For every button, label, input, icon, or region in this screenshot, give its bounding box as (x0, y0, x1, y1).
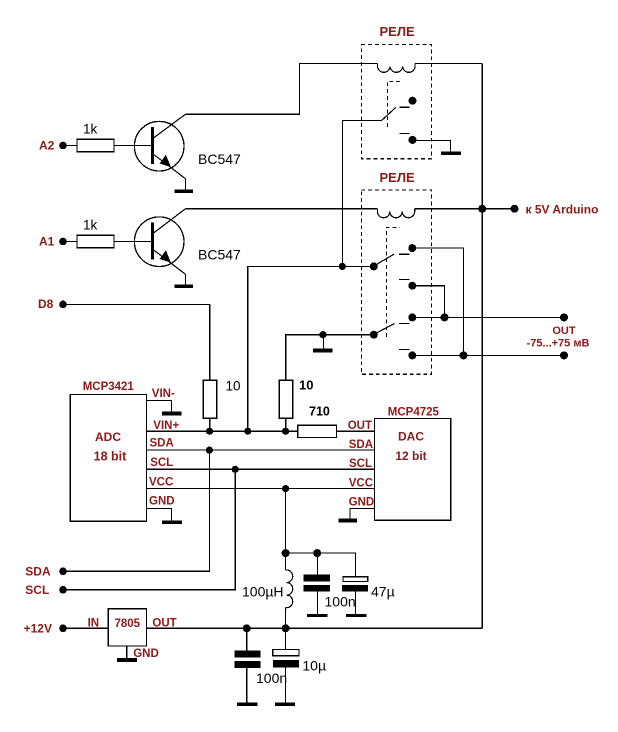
relay K2 inner linkage (386, 228, 400, 337)
relay K1 outline (361, 45, 431, 159)
wire R3 to VIN+ (285, 418, 287, 431)
junction SDA drop (206, 447, 213, 454)
wire 7805 GND (126, 646, 128, 658)
junction relay commons (339, 263, 346, 270)
resistor R4 (77, 235, 114, 247)
wire relay K2 contact1 to contact4 (412, 248, 463, 355)
junction power line L1/C4 (282, 624, 290, 632)
svg-text:SDA: SDA (150, 438, 174, 450)
relay K2 outline (361, 190, 431, 374)
wire +12V to regulator (66, 627, 108, 629)
relay K2 contact 1 stub (399, 253, 409, 255)
resistor R2 (203, 380, 216, 418)
ground C2 (346, 614, 366, 617)
node OUT upper (560, 313, 568, 321)
wire R1 to Q1 base (114, 145, 152, 147)
svg-text:GND: GND (149, 496, 175, 508)
resistor R3 (279, 380, 292, 418)
wire SCL to terminal (66, 469, 235, 590)
svg-text:100µH: 100µH (242, 583, 284, 599)
capacitor C2 47µ (342, 577, 368, 614)
wire D8 to R2 (66, 304, 210, 380)
transistor Q1 BC547 (134, 114, 185, 189)
svg-text:ADC: ADC (95, 430, 121, 444)
relay K2 contact 2 stub (399, 279, 409, 281)
svg-text:GND: GND (133, 648, 159, 660)
relay K2 contact 2 dot (408, 282, 416, 290)
wire common B to ground and R3 (286, 335, 374, 380)
resistor R5 710 (298, 425, 337, 437)
svg-text:MCP4725: MCP4725 (388, 406, 440, 418)
wire R4 to Q2 base (114, 241, 152, 243)
ground C4 (275, 703, 295, 706)
junction VCC drop (282, 485, 289, 492)
svg-text:РЕЛЕ: РЕЛЕ (380, 24, 415, 39)
relay K1 armature (381, 108, 395, 121)
pin GND (ADC) (147, 496, 175, 521)
wire Q1 collector net (185, 63, 377, 114)
svg-text:РЕЛЕ: РЕЛЕ (380, 170, 415, 185)
junction VIN+/R2 (206, 428, 213, 435)
ground Q2 emitter (175, 284, 194, 288)
svg-text:100n: 100n (325, 593, 356, 609)
wire SCL bus (147, 468, 375, 470)
node SCL (25, 583, 67, 597)
ground Q1 emitter (175, 189, 194, 193)
wire OUT lower (412, 354, 564, 356)
ground 7805 (117, 658, 137, 662)
svg-text:D8: D8 (38, 297, 54, 311)
ground VIN- (162, 412, 182, 416)
wire A2 to R1 (66, 145, 78, 147)
node relay K2 common B (370, 331, 378, 339)
svg-text:-75...+75 мВ: -75...+75 мВ (527, 337, 590, 349)
wire VCC to filter (285, 489, 287, 553)
relay K2 contact 1 dot (408, 244, 416, 252)
relay K2 contact 3 dot (408, 313, 416, 321)
svg-text:SCL: SCL (349, 458, 372, 470)
svg-text:к 5V Arduino: к 5V Arduino (526, 203, 599, 217)
capacitor C3 100n (235, 628, 261, 702)
junction SCL drop (232, 466, 239, 473)
svg-text:GND: GND (349, 497, 375, 509)
relay K1 contact NC dot (409, 136, 417, 144)
wire 710 to DAC OUT (337, 430, 375, 432)
svg-text:+12V: +12V (24, 621, 52, 635)
svg-text:10µ: 10µ (302, 658, 326, 674)
node SDA (25, 565, 67, 579)
wire filter top (286, 553, 356, 577)
wire relay K1 NC to ground (413, 140, 451, 151)
relay K1 contact NC stub (399, 133, 409, 135)
wire commons to VIN+ (248, 266, 374, 431)
wire +5V right rail (481, 63, 483, 628)
svg-text:OUT: OUT (348, 420, 372, 432)
svg-text:12 bit: 12 bit (395, 449, 426, 463)
svg-text:VIN-: VIN- (152, 388, 175, 400)
svg-text:10: 10 (226, 379, 241, 394)
relay K1 contact NO dot (409, 97, 417, 105)
ground ADC GND (162, 520, 182, 524)
svg-text:1k: 1k (83, 218, 98, 233)
transistor Q2 BC547 (134, 209, 185, 285)
junction +5V rail / relay coils (478, 205, 486, 213)
wire Q2 collector net to relay 2 coil and Arduino (185, 208, 377, 210)
wire SDA to terminal (66, 450, 209, 571)
svg-text:BC547: BC547 (198, 247, 241, 263)
wire relay K2 contact2 to contact3 (412, 286, 444, 318)
node A2 (39, 139, 67, 153)
wire SDA bus (147, 449, 375, 451)
svg-text:A2: A2 (39, 139, 55, 153)
node D8 (38, 297, 67, 311)
junction contact1-4 (460, 351, 468, 359)
svg-text:100n: 100n (256, 670, 287, 686)
svg-text:10: 10 (299, 378, 313, 393)
junction VIN+/relay (244, 428, 251, 435)
svg-text:DAC: DAC (398, 429, 424, 443)
ground C1 (307, 614, 328, 617)
ground DAC GND (339, 519, 358, 523)
svg-text:SCL: SCL (25, 583, 49, 597)
regulator U3 7805 (108, 609, 146, 646)
inductor L1 100µH (286, 553, 293, 628)
ground relay K2 common B (313, 335, 333, 353)
wire R2 to VIN+ (209, 418, 211, 431)
svg-text:SDA: SDA (25, 565, 51, 579)
pin GND (DAC) (349, 497, 375, 519)
relay K2 contact 3 stub (399, 323, 409, 325)
svg-text:7805: 7805 (115, 618, 141, 630)
relay K2 armature B (375, 324, 394, 334)
junction power line C3 (243, 624, 251, 632)
svg-text:47µ: 47µ (371, 584, 395, 600)
relay K2 coil (377, 209, 414, 218)
relay K2 contact 4 stub (399, 348, 409, 350)
svg-text:VCC: VCC (349, 477, 373, 489)
svg-text:BC547: BC547 (198, 151, 241, 167)
node к 5V Arduino (511, 203, 599, 217)
wire A1 to R4 (66, 241, 78, 243)
wire VCC bus (147, 488, 375, 490)
relay K1 contact NO stub (399, 106, 409, 108)
ground C3 (237, 703, 257, 706)
relay K2 contact 4 dot (408, 351, 416, 359)
svg-text:A1: A1 (39, 235, 55, 249)
wire 5V power line (146, 627, 482, 629)
node OUT lower (560, 351, 568, 359)
junction VIN+/R3 (282, 428, 289, 435)
svg-text:SDA: SDA (349, 439, 373, 451)
IC U1 MCP3421 body (70, 394, 146, 521)
ground relay K1 contact (441, 151, 461, 155)
junction ground tap (319, 331, 326, 338)
resistor R1 (77, 139, 114, 151)
node +12V (24, 621, 67, 635)
IC U2 MCP4725 body (375, 418, 451, 520)
junction 100n top cap (313, 549, 321, 557)
svg-text:VIN+: VIN+ (153, 420, 179, 432)
wire OUT upper (412, 316, 564, 318)
svg-text:MCP3421: MCP3421 (83, 381, 135, 393)
svg-text:OUT: OUT (552, 325, 576, 337)
relay K2 armature A (375, 254, 394, 265)
wire relay K1 common (343, 121, 382, 267)
relay K1 inner linkage (387, 81, 402, 127)
junction contact2-3 (441, 313, 449, 321)
svg-text:IN: IN (88, 618, 100, 630)
node relay K2 common A (370, 262, 378, 270)
svg-text:710: 710 (309, 405, 330, 419)
svg-text:1k: 1k (83, 122, 98, 137)
capacitor C4 10µ (273, 628, 299, 702)
wire VIN+ bus (147, 430, 298, 432)
junction VCC/inductor top (282, 549, 290, 557)
svg-text:18 bit: 18 bit (94, 449, 127, 463)
relay K1 coil (378, 63, 416, 72)
node A1 (39, 235, 67, 249)
pin VIN- (147, 388, 175, 412)
svg-text:SCL: SCL (150, 457, 173, 469)
svg-text:VCC: VCC (149, 476, 173, 488)
capacitor C1 100n (303, 553, 330, 614)
